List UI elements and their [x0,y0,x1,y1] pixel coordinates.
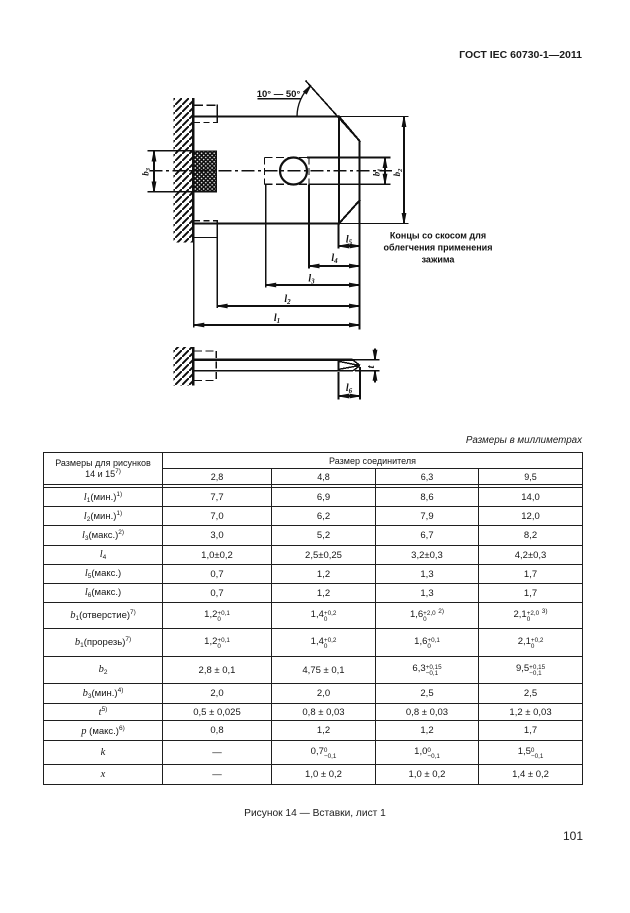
figure 14 drawing [0,0,630,430]
upper shoulder step [194,105,217,123]
l4 extension line [308,184,310,268]
l6 extension lines [339,367,361,400]
hidden shoulder (dashed, lower figure) [194,351,217,381]
label b1 [372,168,384,176]
t extension lines [352,360,380,371]
label b3 [140,167,152,176]
l1 extension line [193,243,195,328]
l3 extension line [265,184,267,287]
dimension l5 [339,244,361,248]
label l1 [274,313,280,325]
dimension b2 [402,117,406,224]
label b2 [392,168,404,177]
svg-text:b2: b2 [392,168,404,177]
dimension table [43,452,583,785]
wall face line (lower figure) [192,347,194,386]
wall face line (upper figure) [192,98,194,243]
dimension l1 [194,323,360,327]
svg-text:облегчения применения: облегчения применения [384,243,493,253]
dimension l4 [309,264,360,268]
svg-text:b3: b3 [140,167,152,176]
dimension b1 [383,158,387,185]
l2 extension line [216,238,218,308]
note: bevelled ends for easy clamp application [384,231,493,265]
right extension line for length dimensions [359,201,361,330]
page header ГОСТ IEC 60730-1—2011 [0,49,582,61]
b2 extension lines [339,117,409,224]
hidden hole rectangle (dashed) [265,158,310,185]
lower shoulder step [194,220,217,238]
tapered tip [339,359,361,371]
angle label 10°-50° [257,89,301,100]
dimension l3 [266,283,360,287]
svg-text:l5: l5 [346,234,353,246]
tab blade outline (upper figure) [193,115,339,224]
svg-text:зажима: зажима [422,254,456,264]
svg-text:b1: b1 [372,168,384,176]
b3 extension lines [148,151,217,192]
svg-text:l3: l3 [308,274,315,286]
label l3 [308,274,315,286]
b1 extension lines [307,158,391,185]
figure caption [0,808,630,819]
chamfer angle arc [297,84,312,116]
l5 extension lines [338,225,340,249]
bevelled end face [338,116,360,225]
hole b1 (circle) [280,158,307,185]
svg-text:l1: l1 [274,313,280,325]
label l6 [346,383,353,395]
dimension b3 [152,151,156,192]
units note [0,435,582,446]
wall hatching (upper figure) [173,98,193,243]
blade side view [193,360,353,371]
svg-text:Концы со скосом для: Концы со скосом для [390,231,486,241]
label l4 [331,253,338,265]
centre line [150,170,393,172]
svg-text:l2: l2 [284,294,291,306]
chamfer angle construction line [306,81,360,142]
wall hatching (lower figure) [174,347,194,386]
dimension t [373,349,377,383]
label l2 [284,294,291,306]
page number [0,829,583,843]
dimension l2 [217,304,359,308]
dimension l6 [339,394,361,398]
svg-text:l6: l6 [346,383,353,395]
svg-text:l4: l4 [331,253,338,265]
label t [365,365,377,369]
svg-text:t: t [365,365,377,369]
label l5 [346,234,353,246]
insulating bushing (cross-hatched block) [194,151,217,192]
